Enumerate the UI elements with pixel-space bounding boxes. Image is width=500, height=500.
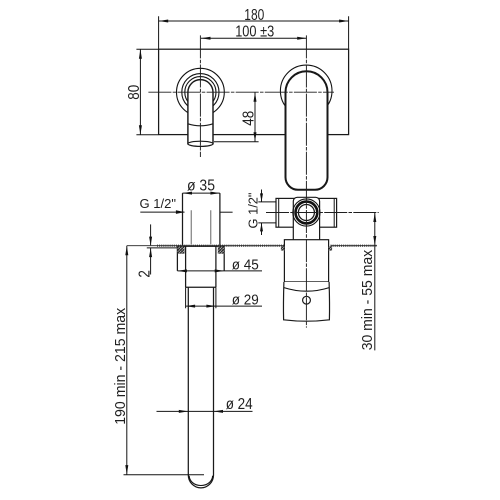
phi29 extension lines bbox=[186, 287, 216, 308]
spout tube phi24 (side view) bbox=[188, 287, 213, 475]
dimension 48 top arrow bbox=[254, 92, 257, 102]
valve connection outer circle bbox=[293, 199, 320, 226]
dimension 2 lower arrow bbox=[149, 248, 152, 257]
dimension 30-55 bottom arrow bbox=[373, 236, 376, 246]
wall pipe G1/2 (side view spout) left edge bbox=[183, 193, 220, 245]
G 1/2 valve extension lines bbox=[258, 202, 276, 223]
dimension 190min-215max line bbox=[126, 246, 128, 475]
valve cover dome arc bbox=[284, 288, 329, 292]
vertical centerline handle/valve bbox=[305, 35, 307, 327]
svg-text:2: 2 bbox=[137, 270, 154, 278]
dimension phi45 left arrow bbox=[177, 269, 187, 272]
dimension 2 upper arrow bbox=[149, 237, 152, 246]
valve central boss bbox=[293, 197, 319, 239]
G 1/2 valve dim line lower bbox=[261, 223, 263, 235]
spout tube end cap ellipse bbox=[188, 141, 213, 146]
dimension phi35 line bbox=[183, 192, 220, 194]
dimension 190 top arrow bbox=[125, 246, 128, 256]
spout flange middle circle bbox=[182, 74, 219, 111]
handle lever body bbox=[286, 71, 328, 190]
wall hatch right of spout bbox=[218, 247, 225, 254]
horizontal centerline (front view) bbox=[148, 91, 334, 93]
wall line textured left bbox=[157, 245, 284, 247]
dimension 2 upper line bbox=[150, 224, 152, 245]
valve tube end lines bbox=[279, 198, 335, 227]
dimension 48 extension line bbox=[214, 141, 259, 143]
svg-text:100 ±3: 100 ±3 bbox=[235, 24, 274, 41]
dimension phi35 right arrow bbox=[210, 192, 220, 195]
dimension 80 line bbox=[139, 49, 141, 135]
valve cross tubes (side view) bbox=[276, 198, 337, 227]
dimension 190 bottom arrow bbox=[125, 465, 128, 475]
pipe thread inner lines bbox=[191, 210, 211, 244]
dimension phi24 line bbox=[157, 410, 253, 412]
dimension 180 left arrow bbox=[159, 20, 169, 23]
dimension phi29 line bbox=[186, 305, 262, 307]
spout tube bottom cap outer bbox=[188, 475, 213, 488]
dimension 180 line bbox=[159, 20, 349, 22]
dimension 100 left arrow bbox=[201, 37, 211, 40]
svg-text:48: 48 bbox=[241, 111, 258, 126]
thread mark right of pipe bbox=[220, 211, 233, 213]
spout tube seam bbox=[188, 124, 213, 126]
dimension 48 line bbox=[254, 92, 256, 142]
svg-text:30 min - 55 max: 30 min - 55 max bbox=[359, 249, 376, 350]
svg-text:ø 35: ø 35 bbox=[187, 178, 215, 195]
dimension phi29 left arrow bbox=[186, 305, 196, 308]
G 1/2 valve upper arrow bbox=[260, 193, 263, 202]
spout flange inner circle bbox=[185, 77, 216, 108]
svg-text:G 1/2": G 1/2" bbox=[140, 197, 177, 211]
svg-text:180: 180 bbox=[244, 7, 264, 24]
spout flange outer circle bbox=[177, 68, 225, 116]
svg-text:190 min - 215 max: 190 min - 215 max bbox=[112, 307, 129, 424]
dimension 100 right arrow bbox=[297, 37, 307, 40]
dimension 80 bottom arrow bbox=[139, 125, 142, 135]
wall hatch left of spout bbox=[178, 247, 185, 254]
valve cover trim bbox=[283, 282, 329, 321]
G 1/2 valve lower arrow bbox=[260, 223, 263, 232]
spout tube (front view) bbox=[188, 80, 213, 144]
valve cover screw bbox=[303, 296, 311, 304]
dimension phi29 right arrow bbox=[206, 305, 216, 308]
dimension 80 extension lines bbox=[136, 49, 158, 135]
spout body phi29 (side view) bbox=[186, 246, 216, 287]
G 1/2 valve dim line upper bbox=[261, 190, 263, 202]
wall line textured right bbox=[331, 245, 378, 247]
dimension 80 top arrow bbox=[139, 49, 142, 59]
dimension 180 right arrow bbox=[339, 20, 349, 23]
spout tube bottom cap inner bbox=[189, 476, 212, 486]
dimension phi24 right arrow bbox=[214, 410, 224, 413]
wall hatch right of valve bbox=[329, 246, 333, 250]
dimension phi24 left arrow bbox=[179, 410, 189, 413]
valve connection inner circle bbox=[298, 205, 314, 221]
valve horizontal centerline bbox=[266, 212, 379, 214]
flange face extension line for dim 2 bbox=[147, 247, 178, 249]
svg-text:80: 80 bbox=[126, 85, 143, 100]
svg-text:ø 45: ø 45 bbox=[232, 256, 259, 273]
G 1/2 leader line bbox=[140, 211, 184, 213]
dimension phi45 line bbox=[177, 270, 262, 272]
dimension 180 extension lines bbox=[159, 16, 349, 49]
handle outer thin circle bbox=[280, 65, 332, 117]
dimension 30-55 top arrow bbox=[373, 213, 376, 223]
svg-text:ø 29: ø 29 bbox=[232, 292, 259, 309]
wall hatch left of valve bbox=[281, 246, 285, 250]
dimension phi35 left arrow bbox=[183, 192, 193, 195]
dimension 48 bottom arrow bbox=[254, 132, 257, 142]
svg-text:ø 24: ø 24 bbox=[226, 396, 253, 413]
valve in-wall body bbox=[284, 240, 328, 282]
dimension 100 +-3 line bbox=[201, 37, 307, 39]
vertical centerline spout (front view) bbox=[199, 35, 201, 157]
dimension 2 lower line bbox=[150, 248, 152, 274]
G 1/2 leader arrow bbox=[176, 210, 185, 214]
valve connection ring bbox=[296, 202, 318, 224]
dimension 30min-55max line bbox=[374, 213, 376, 351]
wall line left solid bbox=[127, 245, 158, 247]
mounting plate (front view) bbox=[159, 49, 349, 134]
dimension phi45 right arrow bbox=[215, 269, 225, 272]
spout flange (phi45) outline bbox=[177, 246, 224, 271]
dimension 190 extension line bbox=[124, 474, 205, 476]
